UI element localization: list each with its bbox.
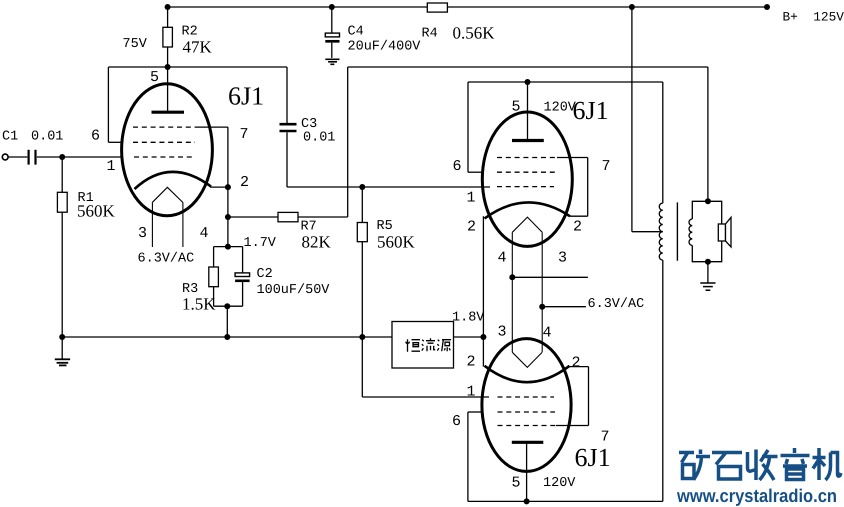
wire feedback top [348, 66, 708, 68]
svg-text:2: 2 [467, 219, 476, 236]
svg-text:0.01: 0.01 [303, 131, 335, 146]
resistor R3 [209, 247, 219, 307]
wire transformer primary bottom lead [662, 260, 664, 501]
watermark kuangshi shouyinji [679, 448, 841, 480]
tube U2 heater [512, 217, 542, 352]
capacitor C3 [280, 67, 297, 187]
node junction ground rail left [59, 334, 65, 340]
resistor R2 [163, 7, 173, 67]
wire B+ to primary tap [632, 7, 663, 232]
wire tube3 grid drop [362, 337, 489, 397]
tube U2 envelope [482, 112, 572, 246]
svg-text:1.7V: 1.7V [244, 236, 277, 251]
inductor transformer primary [659, 203, 663, 260]
svg-text:5: 5 [150, 69, 159, 86]
svg-text:47K: 47K [183, 38, 213, 57]
tube U3 heater [512, 352, 542, 367]
node junction heater right [539, 304, 545, 310]
wire U1 pin7 to cathode box [197, 127, 228, 247]
svg-text:20uF/400V: 20uF/400V [348, 40, 422, 55]
wire U3 pin7 to cathode box right [556, 367, 589, 426]
node junction top rail at C4 [329, 4, 335, 10]
tube U1 plate bar [152, 111, 185, 114]
wire U3 pin6 to bottom rail [468, 412, 482, 501]
wire tube1 screen box left [108, 67, 122, 142]
svg-text:560K: 560K [77, 202, 116, 221]
ground C4 [325, 59, 339, 64]
svg-text:6.3V/AC: 6.3V/AC [138, 252, 195, 267]
node junction grid line at R5 [359, 184, 365, 190]
tube U1 heater [152, 187, 183, 247]
node junction U1 cathode at R7 [225, 214, 231, 220]
svg-text:C4: C4 [348, 25, 364, 40]
svg-text:3: 3 [498, 324, 507, 341]
svg-text:C1: C1 [2, 130, 18, 145]
tube U3 grid pin1 dashed [498, 396, 555, 398]
capacitor C2 [235, 247, 250, 307]
wire CCS output [454, 336, 484, 338]
wire U2 screen box left [468, 82, 484, 172]
inductor transformer secondary [689, 219, 692, 245]
wire cathode bus tube2 to tube3 [482, 216, 484, 366]
svg-text:B+ 125V: B+ 125V [783, 10, 844, 25]
node junction U1 cathode at R3C2 [225, 244, 231, 250]
tube U3 cathode [485, 366, 589, 382]
svg-text:0.56K: 0.56K [453, 24, 496, 43]
svg-text:6: 6 [452, 413, 461, 430]
transformer core [676, 202, 678, 260]
terminal input jack [2, 154, 8, 160]
node junction speaker top [705, 198, 711, 204]
svg-text:6.3V/AC: 6.3V/AC [588, 297, 645, 312]
svg-text:R4: R4 [422, 27, 438, 42]
wire heater supply 1 [512, 276, 588, 278]
tube U2 grid pin1 dashed [497, 186, 554, 188]
wire U1 plate stem [167, 67, 169, 112]
resistor R1 [57, 157, 67, 337]
label CCS hengliuyuan glyphs [406, 338, 451, 352]
wire R3 C2 top [214, 246, 243, 248]
tube U1 cathode [135, 172, 228, 189]
wire heater supply 2 [542, 306, 586, 308]
speaker LS1 [718, 217, 731, 247]
svg-text:6: 6 [91, 128, 100, 145]
tube U3 envelope [482, 339, 571, 472]
tube U2 grid pin6 dashed [497, 171, 557, 173]
svg-text:C2: C2 [257, 267, 273, 282]
svg-text:6: 6 [453, 158, 462, 175]
node junction speaker bottom [705, 259, 711, 265]
tube U1 envelope [122, 84, 213, 216]
node junction tube1 plate [165, 64, 171, 70]
svg-text:www.crystalradio.cn: www.crystalradio.cn [676, 485, 837, 506]
box CCS constant current source [392, 322, 454, 369]
svg-text:7: 7 [240, 126, 249, 143]
capacitor C4 [325, 7, 339, 58]
svg-text:2: 2 [572, 355, 581, 372]
svg-text:1.5K: 1.5K [182, 295, 216, 314]
tube U3 grid pin6 dashed [498, 411, 556, 413]
wire U2 pin7 to cathode box right [557, 158, 588, 217]
tube U2 grid pin7 dashed [497, 157, 557, 159]
node junction top rail at R2 [165, 4, 171, 10]
tube U3 plate bar [512, 441, 544, 444]
node junction bottom rail at plate [524, 498, 530, 504]
node junction U2 plate [525, 79, 531, 85]
svg-text:7: 7 [602, 158, 611, 175]
tube U2 plate bar [512, 139, 544, 142]
wire U2 plate line [468, 81, 663, 83]
tube U1 grid pin7 dashed [133, 126, 197, 128]
node junction U1 cathode pin2 [225, 184, 231, 190]
wire grid line C3 to tube2 pin1 [287, 186, 490, 188]
svg-text:120V: 120V [543, 476, 576, 491]
tube U2 cathode [485, 202, 571, 218]
svg-text:3: 3 [138, 225, 147, 242]
svg-text:6J1: 6J1 [575, 443, 611, 472]
ground speaker [700, 262, 715, 291]
node junction cathode bus at CCS [480, 334, 486, 340]
wire feedback R7 line [228, 216, 348, 218]
node junction top rail at transformer tap [629, 4, 635, 10]
resistor R4 [427, 3, 447, 12]
wire feedback vertical [347, 67, 349, 217]
wire R3 C2 bottom [214, 305, 243, 307]
wire cathode net to ground rail [226, 306, 228, 337]
tube U3 grid pin7 dashed [498, 425, 557, 427]
wire tube1 plate line [108, 66, 287, 68]
node junction heater left [509, 274, 515, 280]
svg-text:7: 7 [601, 429, 610, 446]
tube U1 grid pin1 dashed [134, 156, 195, 158]
svg-text:2: 2 [467, 354, 476, 371]
wire B+ top rail [168, 6, 767, 8]
wire U3 plate stem [526, 443, 528, 502]
svg-text:2: 2 [573, 219, 582, 236]
node junction input at R1 [59, 154, 65, 160]
wire transformer primary top lead [662, 82, 664, 203]
svg-text:3: 3 [558, 250, 567, 267]
svg-text:2: 2 [240, 174, 249, 191]
svg-text:5: 5 [512, 99, 521, 116]
wire speaker loop [692, 201, 721, 261]
svg-text:75V: 75V [123, 37, 148, 52]
svg-text:5: 5 [512, 475, 521, 492]
node B+ terminal [764, 4, 770, 10]
svg-text:0.01: 0.01 [31, 130, 63, 145]
ground main [55, 337, 70, 365]
svg-text:4: 4 [498, 250, 507, 267]
svg-text:4: 4 [200, 225, 209, 242]
resistor R5 [357, 187, 367, 337]
node junction ground rail at tube1 cathode [224, 334, 230, 340]
svg-text:100uF/50V: 100uF/50V [257, 283, 331, 298]
wire ground rail [62, 336, 392, 338]
wire bottom rail [468, 500, 663, 502]
svg-text:1: 1 [107, 158, 116, 175]
wire U2 plate stem [527, 82, 529, 141]
tube U1 grid pin6 dashed [133, 141, 195, 143]
svg-text:1: 1 [467, 384, 476, 401]
node junction R3C2 bottom [224, 303, 230, 309]
svg-text:6J1: 6J1 [573, 96, 609, 125]
wire feedback down to speaker [707, 67, 709, 201]
svg-text:1.8V: 1.8V [452, 311, 485, 326]
svg-text:82K: 82K [302, 233, 332, 252]
resistor R7 [278, 212, 298, 221]
svg-text:1: 1 [467, 190, 476, 207]
capacitor C1 [8, 150, 122, 165]
svg-text:560K: 560K [377, 233, 416, 252]
node junction ground rail at R5 [359, 334, 365, 340]
svg-text:6J1: 6J1 [228, 82, 264, 111]
svg-text:4: 4 [543, 325, 552, 342]
